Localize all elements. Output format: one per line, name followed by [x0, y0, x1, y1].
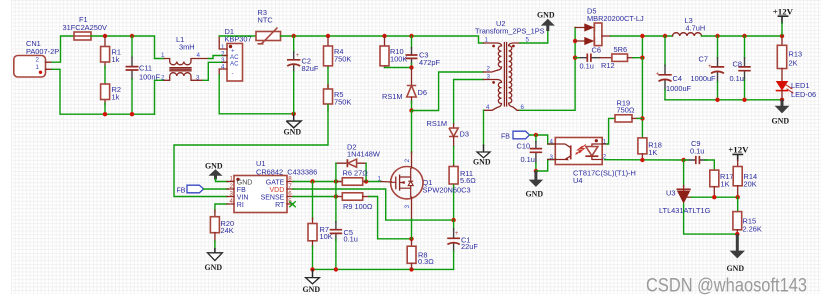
wire R20 to ground	[214, 241, 216, 249]
junction dot gate-R6 left	[334, 179, 338, 183]
junction dot D5 lower anode	[573, 39, 577, 43]
wire U3 ref to divider	[691, 196, 738, 198]
junction dot R18 bottom	[640, 158, 644, 162]
wire C10 node to U4 pin3	[536, 160, 555, 172]
svg-text:GND: GND	[284, 128, 302, 137]
capacitor C3	[406, 36, 441, 68]
wire clamp node down to Q1 drain	[411, 111, 413, 154]
svg-text:RS1M: RS1M	[382, 92, 403, 101]
resistor R1	[101, 36, 121, 68]
wire D6 to drain node	[411, 101, 413, 111]
svg-text:4: 4	[230, 198, 234, 205]
diode D2 1N4148W	[336, 143, 380, 182]
junction dot gnd C2	[292, 112, 296, 116]
wire xfmr pin5 to GND	[520, 31, 548, 43]
svg-text:GND: GND	[237, 180, 253, 187]
wire R10 bottom to snubber node	[385, 67, 412, 69]
ground below C10	[526, 171, 544, 199]
svg-text:+12V: +12V	[773, 7, 794, 17]
resistor R19 750Ω	[615, 99, 638, 122]
capacitor C11	[126, 36, 161, 114]
wire clamp node to xfmr pin2	[412, 72, 484, 111]
svg-text:0.1u: 0.1u	[344, 234, 358, 243]
junction dot output rail at R18 branch	[640, 34, 644, 38]
svg-text:VDD: VDD	[270, 187, 285, 194]
svg-text:6: 6	[288, 190, 292, 197]
resistor R17 1K	[710, 170, 734, 197]
svg-text:LED1: LED1	[791, 81, 810, 90]
wire R5 bottom to U1 VIN	[174, 105, 328, 197]
junction dot R1 top	[103, 34, 107, 38]
svg-text:R12: R12	[601, 61, 615, 70]
svg-text:C8: C8	[733, 59, 742, 68]
svg-text:RI: RI	[237, 202, 244, 209]
junction dot R4 top	[326, 34, 330, 38]
svg-text:0.1u: 0.1u	[730, 74, 744, 83]
svg-text:LTL431ATLT1G: LTL431ATLT1G	[659, 206, 711, 215]
svg-text:GND: GND	[727, 264, 745, 273]
junction dot C11 bottom	[130, 112, 134, 116]
wire R4-R5	[327, 67, 329, 89]
fuse F1	[63, 15, 107, 40]
wire VDD row to C1 node	[293, 189, 454, 220]
svg-text:1K: 1K	[721, 180, 730, 189]
junction dot U3 cathode branch	[681, 158, 685, 162]
wire GATE row	[293, 181, 382, 183]
junction dot R8 top (current sense node)	[409, 237, 413, 241]
junction dot gate-R7	[310, 179, 314, 183]
thermistor R3 NTC	[256, 8, 281, 44]
wire CN1 pin2 to F1	[52, 36, 74, 62]
svg-text:7: 7	[288, 183, 292, 190]
ground below R15	[727, 234, 746, 273]
svg-text:FB: FB	[237, 187, 246, 194]
MOSFET Q1 SPW20N60C3	[378, 158, 471, 208]
svg-text:22uF: 22uF	[461, 242, 478, 251]
junction dot C10 bottom	[534, 169, 538, 173]
IC U1 CR6842	[227, 159, 317, 213]
wire RI to R20	[215, 204, 227, 212]
primary gnd rail (U1 area)	[313, 268, 454, 270]
capacitor C2 (bulk, polarized)	[287, 36, 319, 114]
svg-text:FB: FB	[177, 187, 186, 194]
resistor R7	[308, 224, 333, 248]
junction dot C8 top	[742, 34, 746, 38]
junction dot FB-C10	[534, 133, 538, 137]
svg-text:4: 4	[197, 52, 201, 59]
wire L1 pin3 to D1 pin3	[203, 62, 227, 80]
primary winding 1 (pins 1-2)	[484, 43, 502, 72]
optocoupler U4 CT817C	[548, 138, 636, 186]
capacitor C7 1000uF	[691, 36, 725, 100]
junction dot C4 top	[663, 34, 667, 38]
LED LED1	[776, 69, 816, 100]
svg-text:D6: D6	[418, 88, 427, 97]
output ground rail	[665, 99, 782, 101]
junction dot drain-clamp node	[409, 108, 413, 112]
svg-text:750Ω: 750Ω	[617, 106, 635, 115]
svg-text:SENSE: SENSE	[261, 195, 285, 202]
power port +12V (divider)	[728, 144, 749, 166]
svg-text:R13: R13	[789, 49, 803, 58]
capacitor C9 0.1u	[684, 139, 708, 164]
junction dot C7 bottom	[715, 98, 719, 102]
svg-text:+: +	[455, 230, 459, 237]
wire FB port to U1	[204, 188, 228, 190]
ground (power arrow) above U1	[205, 162, 223, 180]
svg-text:8: 8	[288, 175, 292, 182]
wire U4 pin1 to R19	[607, 118, 616, 144]
svg-text:CSDN @whaosoft143: CSDN @whaosoft143	[646, 276, 807, 297]
svg-text:20K: 20K	[744, 180, 757, 189]
svg-text:GND: GND	[473, 157, 491, 166]
svg-text:R6 27Ω: R6 27Ω	[343, 169, 369, 178]
junction dot C2 top	[292, 34, 296, 38]
svg-text:VIN: VIN	[237, 195, 249, 202]
svg-text:1: 1	[161, 52, 165, 59]
svg-text:3: 3	[230, 190, 234, 197]
svg-text:U4: U4	[573, 176, 582, 185]
capacitor C5	[330, 221, 358, 243]
wire D1 pin1 to R3	[219, 35, 256, 37]
wire R6 node down to C5	[335, 182, 337, 223]
svg-text:5R6: 5R6	[614, 45, 628, 54]
junction dot C8 bottom	[742, 98, 746, 102]
svg-text:R9 100Ω: R9 100Ω	[343, 202, 373, 211]
svg-text:SPW20N60C3: SPW20N60C3	[423, 186, 471, 195]
capacitor C4 1000uF	[656, 36, 692, 100]
svg-text:PA007-2P: PA007-2P	[26, 47, 59, 56]
inductor L3 4.7uH	[673, 16, 706, 36]
resistor R18 1K	[638, 138, 662, 160]
svg-text:100K: 100K	[390, 55, 407, 64]
wire R18 branch vertical	[641, 58, 643, 139]
ground below R20	[205, 248, 223, 272]
svg-text:1k: 1k	[112, 55, 120, 64]
svg-text:1: 1	[36, 64, 40, 71]
svg-text:MBR20200CT-LJ: MBR20200CT-LJ	[587, 14, 644, 23]
shunt regulator U3 LTL431ATLT1G	[659, 186, 711, 216]
junction dot R13 top	[780, 34, 784, 38]
wire xfmr pin4 to ground	[483, 110, 485, 145]
svg-text:GND: GND	[205, 263, 223, 272]
wire D3 to R11	[453, 147, 455, 166]
svg-text:1: 1	[378, 176, 382, 183]
ground (power arrow) above transformer	[537, 11, 555, 31]
wire FB port to node	[530, 135, 556, 144]
svg-text:LED-06: LED-06	[791, 90, 816, 99]
svg-text:NTC: NTC	[258, 16, 274, 25]
svg-text:1N4148W: 1N4148W	[347, 149, 380, 158]
output rail wire L3 to R13	[702, 35, 783, 37]
svg-text:C11: C11	[139, 64, 152, 73]
svg-text:1000uF: 1000uF	[666, 84, 692, 93]
wire D1 pin4 to primary gnd rail	[219, 75, 294, 114]
svg-text:0.1u: 0.1u	[521, 155, 535, 164]
svg-text:472pF: 472pF	[419, 58, 440, 67]
junction dot R10 top	[382, 34, 386, 38]
svg-text:3: 3	[550, 154, 554, 161]
svg-text:3mH: 3mH	[179, 43, 195, 52]
svg-text:FB: FB	[501, 134, 510, 141]
junction dot R15 bottom	[735, 232, 739, 236]
resistor R8	[407, 239, 434, 270]
junction dot snubber node	[409, 65, 413, 69]
svg-text:0.1u: 0.1u	[690, 147, 704, 156]
junction dot R12 rail	[640, 56, 644, 60]
resistor R14 20K	[733, 167, 757, 198]
resistor R6 27Ω	[336, 169, 368, 186]
svg-text:RT: RT	[275, 202, 285, 209]
snubber capacitor C6	[575, 46, 612, 71]
inductor L1 (common-mode choke)	[161, 35, 208, 81]
HV rail wire R3 to transformer pin1	[281, 36, 484, 43]
capacitor C8 0.1u	[730, 36, 751, 100]
junction dot gate-R6 right	[364, 179, 368, 183]
resistor R20	[210, 210, 234, 242]
svg-text:2: 2	[36, 57, 40, 64]
wire U1 GND pin	[216, 179, 229, 182]
wire R7 to gnd rail	[312, 246, 314, 269]
resistor R4	[324, 36, 352, 68]
wire xfmr pin6 to D5 anodes	[520, 28, 575, 111]
wire R1-R2	[104, 66, 106, 84]
wire xfmr pin3 to D3	[454, 80, 484, 125]
svg-text:+12V: +12V	[728, 144, 749, 154]
svg-text:1K: 1K	[648, 148, 657, 157]
resistor R5	[324, 85, 352, 112]
polarity dots	[492, 45, 495, 48]
wire Q1 source to R8	[411, 197, 413, 220]
svg-text:750K: 750K	[334, 55, 351, 64]
transformer U2 Transform_2PS_1PS	[475, 19, 545, 111]
ground below LED1	[772, 100, 790, 126]
svg-text:1: 1	[230, 175, 234, 182]
junction dot rail-C5	[334, 267, 338, 271]
diode D3 RS1M	[427, 119, 469, 148]
junction dot C11 top	[130, 34, 134, 38]
secondary winding (pins 5-6)	[509, 43, 520, 110]
svg-text:Transform_2PS_1PS: Transform_2PS_1PS	[475, 27, 545, 36]
wire C5 to gnd rail	[335, 239, 337, 269]
wire divider to R15	[737, 197, 739, 212]
svg-text:1000uF: 1000uF	[691, 74, 717, 83]
wire node to U3 cathode	[683, 160, 685, 187]
wire Q1 drain stub	[411, 152, 413, 168]
junction dot rail-R7	[310, 267, 314, 271]
svg-text:C10: C10	[517, 141, 531, 150]
junction dot R2 bottom	[103, 112, 107, 116]
svg-text:C7: C7	[699, 55, 708, 64]
junction dot C6 left	[573, 56, 577, 60]
svg-text:82uF: 82uF	[302, 64, 319, 73]
wire L1 pin2 to bottom rail	[155, 80, 165, 114]
junction dot sense-R9	[334, 194, 338, 198]
ground below gnd rail	[303, 269, 321, 294]
wire SENSE row	[293, 196, 336, 198]
bridge rectifier D1 KBP307	[219, 27, 251, 81]
resistor R13	[777, 36, 802, 69]
svg-text:2: 2	[230, 183, 234, 190]
junction dot divider node	[736, 195, 740, 199]
junction dot LED1 bottom	[780, 98, 784, 102]
port FB (opto side)	[501, 131, 530, 140]
capacitor C1 22uF	[447, 220, 478, 252]
resistor R9 100Ω	[336, 193, 373, 211]
svg-text:750K: 750K	[334, 98, 351, 107]
svg-text:RS1M: RS1M	[427, 119, 448, 128]
connector CN1	[14, 39, 59, 77]
wire CN1 pin1 to bottom rail	[52, 69, 155, 114]
resistor R10	[380, 36, 407, 68]
primary winding 2 (pins 3-4)	[484, 80, 502, 111]
junction dot C3 top	[409, 34, 413, 38]
wire C1 to gnd rail	[453, 251, 455, 269]
svg-text:GND: GND	[303, 285, 321, 294]
svg-text:GATE: GATE	[266, 180, 285, 187]
ground below xfmr pin4	[473, 145, 491, 167]
ground under C2	[284, 114, 302, 137]
resistor R11	[449, 165, 476, 186]
wire R12 to rail	[633, 36, 642, 58]
diode D6 RS1M	[382, 68, 427, 104]
capacitor C10	[517, 135, 543, 171]
junction dot R19-R18	[640, 116, 644, 120]
svg-text:5.6Ω: 5.6Ω	[460, 176, 476, 185]
output rail wire D5 to L3	[611, 35, 673, 37]
svg-text:0.3Ω: 0.3Ω	[418, 257, 434, 266]
snubber resistor R12 (5R6)	[601, 45, 634, 70]
svg-text:U3: U3	[666, 188, 675, 197]
wire C9 to R17	[705, 160, 714, 170]
wire R2 bottom	[104, 103, 106, 114]
svg-text:2: 2	[404, 158, 411, 162]
svg-text:2K: 2K	[789, 58, 798, 67]
wire R19 to vertical	[637, 117, 642, 119]
svg-text:D3: D3	[460, 129, 469, 138]
resistor R15 2.26K	[733, 212, 762, 235]
svg-text:2.26K: 2.26K	[743, 225, 762, 234]
svg-text:4: 4	[550, 138, 554, 145]
resistor R2	[101, 84, 121, 105]
port FB (U1 side)	[177, 185, 204, 194]
svg-text:4.7uH: 4.7uH	[686, 23, 706, 32]
wire R11 bottom to VDD node	[453, 185, 455, 220]
svg-text:0.1u: 0.1u	[580, 62, 594, 71]
wire U4 pin2 row to C9	[605, 159, 687, 161]
junction dot rail-R8	[409, 267, 413, 271]
svg-text:C4: C4	[673, 74, 682, 83]
svg-text:GND: GND	[772, 116, 790, 125]
wire R9 to current sense node	[369, 197, 412, 239]
svg-text:GND: GND	[537, 11, 555, 20]
junction dot R17 bottom	[712, 195, 716, 199]
power port +12V (output)	[773, 7, 794, 36]
wire gate node down to R7	[312, 182, 314, 220]
svg-text:C6: C6	[592, 46, 601, 55]
svg-text:3: 3	[404, 204, 411, 208]
svg-text:24K: 24K	[221, 226, 234, 235]
svg-text:GND: GND	[205, 162, 223, 171]
wire F1 to L1 pin1	[91, 36, 164, 59]
svg-text:31FC2A250V: 31FC2A250V	[63, 23, 107, 32]
svg-text:+: +	[296, 52, 300, 59]
core	[504, 43, 506, 107]
no-connect X on RT pin	[289, 201, 295, 207]
dual diode D5 MBR20200CT-LJ	[575, 7, 644, 46]
wire U3 anode to gnd node	[684, 204, 738, 234]
junction dot C7 top	[715, 34, 719, 38]
wire L1 pin4 to D1 pin2	[208, 56, 227, 59]
svg-text:-: -	[232, 71, 234, 78]
svg-text:1k: 1k	[112, 93, 120, 102]
svg-text:GND: GND	[526, 190, 544, 199]
svg-text:AC: AC	[230, 61, 239, 68]
junction dot VDD-C1-R11 node	[451, 218, 455, 222]
